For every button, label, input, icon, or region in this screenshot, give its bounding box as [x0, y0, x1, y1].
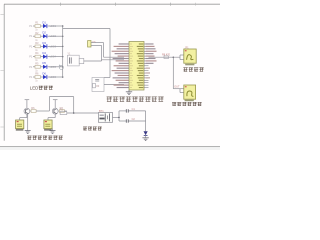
- wire: [33, 76, 35, 78]
- svg-text:D2: D2: [42, 31, 46, 35]
- ground: [142, 136, 148, 141]
- net label row 5 left: [29, 65, 33, 69]
- wire: [104, 84, 124, 86]
- svg-text:R6: R6: [35, 72, 39, 76]
- resistor R1: [35, 21, 41, 32]
- label "大灯电路": [183, 67, 203, 71]
- crystal Y1 loop: [67, 52, 79, 66]
- wire battery to filter: [113, 111, 120, 121]
- U2 pin names (inside right): [137, 43, 144, 88]
- junction: [62, 46, 64, 48]
- capacitor C2: [119, 118, 146, 123]
- net label row 2 right: [50, 34, 57, 38]
- wire: [84, 60, 102, 62]
- wire: [91, 43, 124, 58]
- LED D1: [42, 20, 47, 28]
- svg-text:P1: P1: [29, 34, 33, 38]
- ground: [50, 129, 56, 134]
- connector P3 (headlamp): [184, 49, 196, 65]
- capacitor C3 (electrolytic): [88, 41, 96, 47]
- svg-text:R5: R5: [35, 61, 39, 65]
- reset circuit loop: [92, 78, 104, 92]
- net label at P4: [174, 86, 180, 89]
- wire U2 to P3: [149, 53, 181, 58]
- switch S1: [60, 109, 67, 115]
- net label row 6 right: [50, 75, 57, 79]
- music chip U3: [16, 120, 24, 131]
- wire: [41, 76, 44, 78]
- junction: [173, 56, 175, 58]
- svg-text:OUT: OUT: [174, 86, 180, 89]
- wire: [33, 66, 35, 68]
- net label row 1 right: [50, 24, 57, 28]
- svg-text:LED: LED: [30, 86, 39, 91]
- svg-text:P1: P1: [29, 75, 33, 79]
- wire: [48, 25, 63, 27]
- ground (under U2): [126, 90, 132, 95]
- net label row 3 left: [29, 44, 33, 48]
- net label row 4 right: [50, 55, 57, 59]
- svg-text:D3: D3: [42, 41, 46, 45]
- wire LED bus: [62, 26, 64, 77]
- junction: [62, 76, 64, 78]
- svg-text:R8 470: R8 470: [162, 53, 171, 56]
- net label row 2 left: [29, 34, 33, 38]
- U2 pins (left): [124, 44, 129, 88]
- wire: [33, 45, 35, 47]
- designator of P3: [185, 46, 190, 49]
- svg-text:D5: D5: [42, 61, 46, 65]
- resistor R6 (base): [30, 107, 36, 113]
- capacitor C4 (on bus): [59, 65, 63, 70]
- svg-text:BT1: BT1: [99, 110, 104, 113]
- wire: [33, 25, 35, 27]
- wire: [41, 45, 44, 47]
- svg-text:P1: P1: [29, 65, 33, 69]
- net label row 6 left: [29, 75, 33, 79]
- net label row 3 right: [50, 44, 57, 48]
- wire emitter to chip: [48, 114, 55, 120]
- wire collector rail tick Q1: [25, 100, 30, 109]
- capacitor C5: [79, 58, 84, 63]
- junction: [73, 112, 75, 114]
- wire: [48, 56, 63, 58]
- svg-text:D4: D4: [42, 51, 46, 55]
- svg-text:D6: D6: [42, 71, 46, 75]
- svg-text:P1: P1: [29, 44, 33, 48]
- U2 pin names (inside left): [130, 44, 133, 88]
- wire: [41, 66, 44, 68]
- wire bus to MCU: [63, 29, 110, 78]
- svg-text:R1: R1: [35, 21, 39, 25]
- wire: [48, 76, 63, 78]
- sheet border left: [0, 4, 4, 141]
- junction: [62, 35, 64, 37]
- label "单片机最小系统电路": [107, 96, 164, 101]
- resistor R7 (base): [58, 107, 64, 113]
- ground: [25, 114, 31, 133]
- net label row 5 right: [50, 65, 57, 69]
- label "音乐片播放电路": [27, 136, 63, 140]
- wire: [33, 35, 35, 37]
- wire: [41, 35, 44, 37]
- svg-text:R4: R4: [35, 51, 39, 55]
- wire down to P4: [173, 57, 184, 92]
- transistor Q2: [52, 108, 58, 114]
- wire: [41, 25, 44, 27]
- capacitor C1: [119, 108, 146, 112]
- transistor Q1: [24, 108, 30, 114]
- svg-text:R2: R2: [35, 31, 39, 35]
- label "电源电路": [83, 127, 102, 131]
- LED D4: [42, 51, 47, 59]
- net label row 1 left: [29, 24, 33, 28]
- junction: [62, 56, 64, 58]
- music chip U4: [44, 120, 52, 131]
- label "震动检测接口": [172, 102, 202, 106]
- wire emitter to chip: [20, 114, 27, 120]
- wire VCC rail: [49, 97, 73, 113]
- wire: [48, 45, 63, 47]
- net labels left of U2: [112, 43, 129, 88]
- svg-text:R3: R3: [35, 41, 39, 45]
- resistor R5: [35, 61, 41, 72]
- wire: [48, 35, 63, 37]
- net label row 4 left: [29, 55, 33, 59]
- svg-text:P1: P1: [29, 24, 33, 28]
- sheet border bottom: [0, 147, 220, 150]
- junction: [118, 117, 120, 119]
- LED D3: [42, 41, 47, 49]
- LED D6: [42, 71, 47, 79]
- wire collector rail tick Q2: [53, 100, 58, 109]
- wire: [91, 45, 124, 61]
- net labels right of U2: [146, 43, 157, 78]
- diode D7 (indicator): [144, 131, 148, 135]
- junction: [62, 66, 64, 68]
- label "LED灯电路": [30, 86, 53, 91]
- resistor R3: [35, 41, 41, 52]
- svg-text:D1: D1: [42, 20, 46, 24]
- wire: [48, 66, 63, 68]
- wire fork into P3: [180, 55, 184, 60]
- junction: [62, 25, 64, 27]
- MCU U2 body: [129, 42, 144, 91]
- resistor R6: [35, 72, 41, 83]
- wire to indicator: [145, 111, 147, 131]
- svg-text:P1: P1: [29, 55, 33, 59]
- wire base rail circuit 1: [36, 97, 49, 111]
- battery BT1: [98, 110, 112, 123]
- LED D5: [42, 61, 47, 69]
- resistor R4: [35, 51, 41, 62]
- U2 pins (right): [144, 44, 149, 88]
- wire: [41, 56, 44, 58]
- sheet border top: [4, 3, 220, 6]
- wire switch to battery: [67, 112, 99, 114]
- connector P4 (shake sensor): [184, 85, 196, 101]
- LED D2: [42, 31, 47, 39]
- wire: [33, 56, 35, 58]
- resistor R2: [35, 31, 41, 42]
